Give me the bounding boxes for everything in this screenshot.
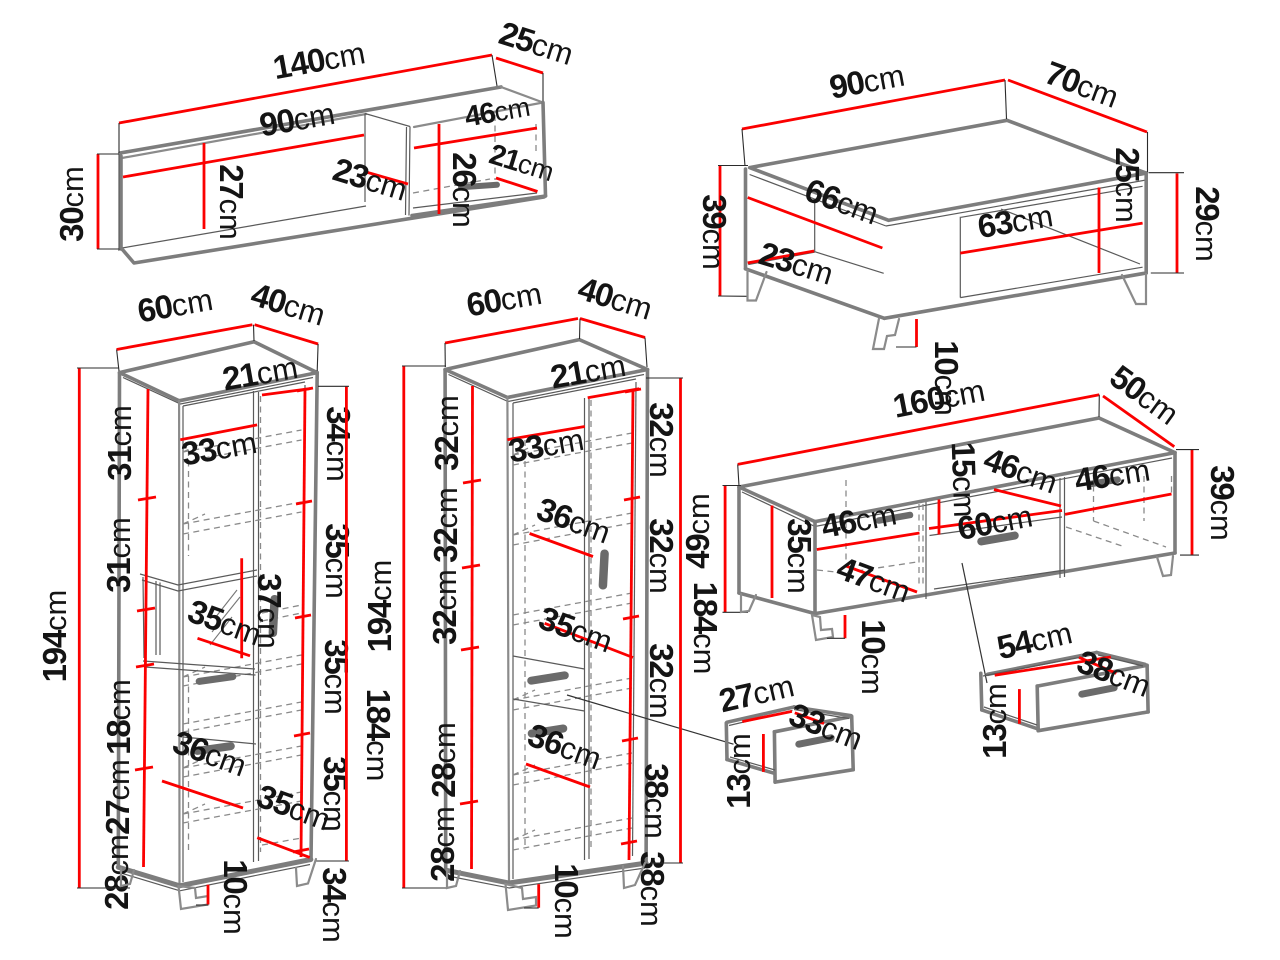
- dim 38cm line: [1079, 657, 1116, 673]
- dim 33cm line: [795, 713, 824, 724]
- body bottom-left edge: [746, 269, 885, 319]
- front-right edge: [1173, 453, 1177, 553]
- inner top edge: [513, 379, 636, 403]
- dashed details: [817, 475, 1172, 573]
- left red measure line: [472, 386, 473, 869]
- svg-text:32cm: 32cm: [426, 569, 463, 645]
- dim 47cm line: [846, 566, 917, 592]
- dim 33cm line: [507, 427, 584, 440]
- cabinet bottom slab line: [413, 193, 537, 208]
- svg-text:28cm: 28cm: [424, 806, 461, 882]
- dashed shelf right column glass level: [262, 605, 302, 845]
- bottom band: [446, 863, 646, 883]
- dim 60cm ext line: [444, 343, 446, 367]
- dim 140cm ext lines: [119, 55, 497, 153]
- dim 35cm bottom diagonal: [257, 838, 310, 858]
- dim 21cm line: [262, 389, 310, 395]
- dim 21cm line: [588, 389, 640, 398]
- dim 160cm ext lines: [738, 395, 1100, 486]
- dim 40cm line: [580, 319, 645, 338]
- top face: [445, 340, 647, 398]
- dim 46cm right line: [1065, 494, 1172, 514]
- divider 2: [1060, 477, 1065, 578]
- dim 10cm ext line: [896, 346, 917, 348]
- dim 49cm ext lines: [723, 486, 749, 613]
- svg-text:13cm: 13cm: [976, 683, 1013, 759]
- dim 25cm line: [496, 58, 543, 73]
- svg-text:39cm: 39cm: [696, 194, 733, 270]
- top face: [739, 418, 1175, 522]
- svg-text:184cm: 184cm: [360, 689, 397, 782]
- left compartment interior lines: [748, 201, 883, 274]
- bottom front edge: [815, 553, 1175, 614]
- drawer handle: [527, 671, 570, 685]
- front top edge left section: [122, 114, 366, 158]
- top slab inner line: [123, 378, 313, 405]
- dashed door edges: [525, 400, 591, 850]
- right line ticks: [293, 388, 313, 852]
- leg east: [1122, 274, 1146, 304]
- svg-text:29cm: 29cm: [1189, 186, 1226, 262]
- dim 10cm line: [207, 885, 210, 905]
- front panel right edge: [1147, 665, 1148, 712]
- bottom outer edge: [122, 197, 544, 263]
- dim 29cm line: [1176, 173, 1179, 272]
- dim 13cm line: [1018, 689, 1021, 724]
- left cap thin line: [119, 154, 122, 250]
- middle divider: [254, 391, 259, 862]
- dim 26cm line: [438, 124, 441, 214]
- dim 27cm line: [203, 143, 206, 229]
- dim 10cm ext: [524, 907, 539, 909]
- dim 35cm line: [771, 506, 774, 599]
- back-left edge: [737, 487, 741, 593]
- dim 23cm line: [366, 172, 408, 184]
- dim 184cm ext lines: [315, 386, 349, 861]
- dim 160cm line: [738, 395, 1100, 465]
- dim 46cm line: [414, 128, 537, 148]
- right door handle: [1088, 476, 1122, 488]
- drawer divider line: [183, 737, 256, 744]
- top face: [120, 342, 318, 401]
- svg-text:30cm: 30cm: [53, 166, 90, 242]
- bottom-left edge: [739, 593, 815, 614]
- drawer handle: [977, 531, 1020, 546]
- front panel left edge: [1037, 686, 1038, 731]
- pointer line to drawer A: [567, 695, 734, 744]
- leg back-left: [741, 594, 756, 612]
- leg left: [121, 869, 134, 887]
- dashed depth hints: [183, 442, 205, 814]
- svg-text:18cm: 18cm: [100, 679, 137, 755]
- dim 40cm line: [255, 325, 319, 344]
- svg-text:31cm: 31cm: [100, 517, 137, 593]
- svg-text:10cm: 10cm: [217, 859, 254, 935]
- dim 10cm line: [915, 319, 918, 347]
- divider left edge: [364, 114, 366, 203]
- dim 194cm ext lines: [402, 366, 450, 888]
- dim 49cm line: [724, 486, 727, 613]
- dim 10cm line: [537, 884, 540, 908]
- dim 140cm line: [119, 55, 492, 123]
- svg-text:25cm: 25cm: [1109, 147, 1146, 223]
- left side bottom edge: [982, 710, 1037, 729]
- glass door handle: [268, 595, 279, 637]
- svg-text:35cm: 35cm: [319, 523, 356, 599]
- upper door handle: [598, 549, 609, 589]
- dim 36cm lower line: [526, 764, 590, 787]
- svg-text:28cm: 28cm: [425, 722, 462, 798]
- cabinet front-right edge: [543, 103, 546, 197]
- back panel top edge: [988, 653, 1097, 675]
- middle divider: [585, 398, 590, 860]
- svg-text:34cm: 34cm: [316, 867, 353, 943]
- inner-left vertical: [512, 403, 514, 879]
- leg south: [873, 319, 899, 350]
- leg front: [179, 886, 209, 909]
- dim 184cm ext lines: [646, 378, 683, 863]
- dim 35cm glass line: [198, 638, 251, 656]
- bottom slab second line: [448, 868, 645, 888]
- bottom slab second line: [121, 865, 310, 891]
- inner-right vertical: [302, 385, 306, 857]
- svg-text:32cm: 32cm: [427, 487, 464, 563]
- dim 25cm line: [1098, 188, 1101, 274]
- dim 63cm line: [960, 223, 1142, 253]
- dashed shelves lower section: [183, 655, 302, 823]
- dim 40cm ext line: [316, 344, 319, 371]
- svg-text:35cm: 35cm: [781, 518, 818, 594]
- dashed door edges: [189, 396, 261, 852]
- dim 10cm ext: [827, 637, 845, 639]
- cabinet top back-right edge: [501, 87, 543, 103]
- leg front-left: [812, 615, 833, 640]
- svg-text:31cm: 31cm: [101, 405, 138, 481]
- dim 21cm line: [496, 178, 538, 192]
- dim 25cm ext line: [542, 73, 544, 101]
- back panel top edge: [120, 87, 501, 153]
- right side top edge: [794, 707, 851, 716]
- left line ticks: [460, 480, 481, 804]
- front panel bottom edge: [1038, 712, 1148, 731]
- svg-text:184cm: 184cm: [687, 582, 724, 675]
- dim 90cm line: [742, 80, 1005, 129]
- divider top edge: [365, 114, 410, 127]
- left outer edge: [118, 373, 119, 868]
- front-left edge: [507, 398, 509, 884]
- svg-text:35cm: 35cm: [318, 639, 355, 715]
- dim 60cm ext lines: [117, 325, 254, 371]
- right outer edge: [311, 373, 317, 860]
- cabinet bottom edge: [412, 196, 546, 216]
- svg-text:32cm: 32cm: [428, 395, 465, 471]
- dim 60cm line: [445, 319, 578, 344]
- dim 27cm line: [742, 711, 792, 721]
- right outer edge: [646, 370, 647, 864]
- dim 90cm line: [123, 135, 364, 177]
- dim 23cm line: [748, 251, 814, 263]
- dim 39cm line: [1191, 450, 1194, 555]
- dashed shelves lower section: [513, 678, 632, 850]
- door handle: [458, 182, 500, 191]
- dim 13cm line: [762, 734, 765, 772]
- left red measure line: [144, 389, 149, 867]
- dim 40cm ext lines: [580, 319, 648, 368]
- cabinet top front edge: [414, 103, 543, 128]
- tabletop slab lines: [750, 175, 1146, 227]
- dim 36cm line: [162, 781, 243, 808]
- front panel bottom edge: [775, 770, 853, 782]
- leg front-right: [1157, 556, 1173, 576]
- svg-text:39cm: 39cm: [1204, 465, 1241, 541]
- interior thin lines: [983, 655, 1143, 726]
- leg right: [296, 859, 316, 886]
- top slab inner line: [742, 458, 1172, 527]
- left door handle: [875, 511, 914, 524]
- top slab inner line: [449, 375, 645, 402]
- svg-text:38cm: 38cm: [638, 763, 675, 839]
- inner-left vertical: [182, 406, 184, 882]
- bottom band: [118, 860, 310, 886]
- body left edge: [744, 169, 748, 269]
- svg-text:26cm: 26cm: [446, 152, 483, 228]
- leg front: [506, 884, 537, 910]
- back panel top edge: [727, 707, 794, 722]
- divider 1: [925, 502, 927, 599]
- inner top edge: [183, 382, 305, 406]
- left side outer edge: [981, 673, 982, 710]
- drawer handle 1: [195, 673, 237, 686]
- svg-text:10cm: 10cm: [548, 863, 585, 939]
- dashed shelves upper section: [183, 430, 302, 534]
- svg-text:34cm: 34cm: [320, 406, 357, 482]
- glass box bottom band: [143, 661, 256, 675]
- dim 39cm ext lines: [718, 166, 748, 297]
- svg-text:194cm: 194cm: [361, 560, 398, 653]
- left outer edge: [443, 370, 447, 871]
- svg-text:194cm: 194cm: [36, 590, 73, 683]
- right compartment interior lines: [960, 186, 1142, 297]
- leg right: [623, 863, 645, 888]
- dim 46cm left line: [817, 533, 920, 550]
- left line ticks: [135, 497, 156, 770]
- dim 184cm line: [679, 378, 682, 863]
- left side outer edge: [724, 723, 728, 760]
- svg-text:28cm: 28cm: [98, 834, 135, 910]
- dim 46cm mid line: [994, 490, 1061, 507]
- dim 33cm line: [180, 425, 257, 440]
- svg-text:32cm: 32cm: [643, 643, 680, 719]
- svg-text:32cm: 32cm: [643, 518, 680, 594]
- right red measure line: [629, 390, 633, 860]
- svg-text:27cm: 27cm: [99, 759, 136, 835]
- front-left edge: [178, 401, 181, 886]
- drawer handle: [795, 734, 836, 749]
- dim 37cm line: [240, 558, 243, 658]
- left side bottom edge: [727, 760, 774, 774]
- front panel top edge: [1037, 665, 1147, 686]
- glass reflections: [210, 590, 240, 645]
- pointer line to drawer B: [962, 563, 987, 683]
- dim 90cm ext lines: [742, 80, 1007, 166]
- svg-text:49cm: 49cm: [679, 493, 716, 569]
- dim 184cm line: [345, 386, 348, 861]
- drawer bottom line: [513, 699, 585, 711]
- body right edge: [1144, 173, 1148, 273]
- leg west: [748, 270, 767, 301]
- dim 60cm line: [117, 325, 253, 350]
- front panel left edge: [773, 732, 777, 782]
- dim 35cm mid line: [545, 623, 633, 657]
- drawer handle: [1078, 684, 1119, 699]
- glass box top edges: [140, 570, 257, 591]
- dim 39cm ext lines: [1176, 450, 1199, 555]
- bottom front edge: [122, 206, 366, 248]
- body bottom-right edge: [884, 273, 1146, 318]
- glass box left verticals: [143, 577, 160, 658]
- interior thin lines: [729, 710, 849, 771]
- inner-right vertical: [633, 382, 637, 856]
- svg-text:10cm: 10cm: [855, 619, 892, 695]
- drawer top line: [930, 517, 1066, 589]
- svg-text:13cm: 13cm: [720, 733, 757, 809]
- dim 29cm ext lines: [1149, 173, 1185, 273]
- dim 10cm line: [844, 615, 847, 638]
- front-left edge: [813, 522, 817, 614]
- dim 30cm line: [97, 154, 100, 249]
- dim 30cm ext lines: [97, 154, 119, 249]
- dashed depth hints: [513, 445, 535, 840]
- leg left: [447, 870, 460, 888]
- front panel right edge: [852, 717, 854, 770]
- dim 60cm line: [929, 511, 1062, 529]
- divider right edge: [406, 127, 411, 216]
- left end vertical edge: [119, 156, 123, 249]
- dim 39cm line: [719, 166, 722, 297]
- right side top edge: [1097, 653, 1146, 665]
- dim 66cm line: [748, 198, 883, 249]
- dashed shelves upper section: [513, 433, 632, 625]
- tabletop: [750, 120, 1147, 220]
- front panel top edge: [774, 717, 851, 732]
- dim 194cm ext lines: [77, 368, 130, 888]
- dim 54cm line: [995, 657, 1111, 675]
- dim 194cm line: [402, 366, 405, 888]
- dim 15cm line: [938, 500, 941, 535]
- svg-text:32cm: 32cm: [643, 402, 680, 478]
- dim 70cm ext line: [1147, 132, 1149, 172]
- door dashed outline: [413, 115, 536, 193]
- right red measure line: [301, 389, 305, 857]
- drawer handle 2: [193, 742, 236, 756]
- drawer top line: [513, 656, 585, 669]
- dim 50cm line: [1103, 396, 1174, 447]
- dim 194cm line: [78, 368, 81, 888]
- right line ticks: [621, 389, 641, 844]
- dim 36cm upper line: [530, 534, 593, 557]
- svg-text:27cm: 27cm: [213, 164, 250, 240]
- lower door handle: [527, 724, 568, 738]
- dim 10cm ext: [196, 904, 208, 906]
- dim 70cm line: [1008, 80, 1147, 132]
